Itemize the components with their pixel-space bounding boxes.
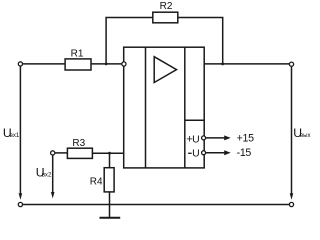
svg-text:R1: R1 [71,49,84,60]
svg-text:+U: +U [186,134,199,146]
svg-text:R2: R2 [160,1,173,12]
svg-text:+15: +15 [237,133,254,145]
svg-text:-15: -15 [237,147,252,159]
svg-text:R3: R3 [72,138,85,149]
svg-text:U: U [192,148,200,160]
svg-text:R4: R4 [90,177,103,188]
